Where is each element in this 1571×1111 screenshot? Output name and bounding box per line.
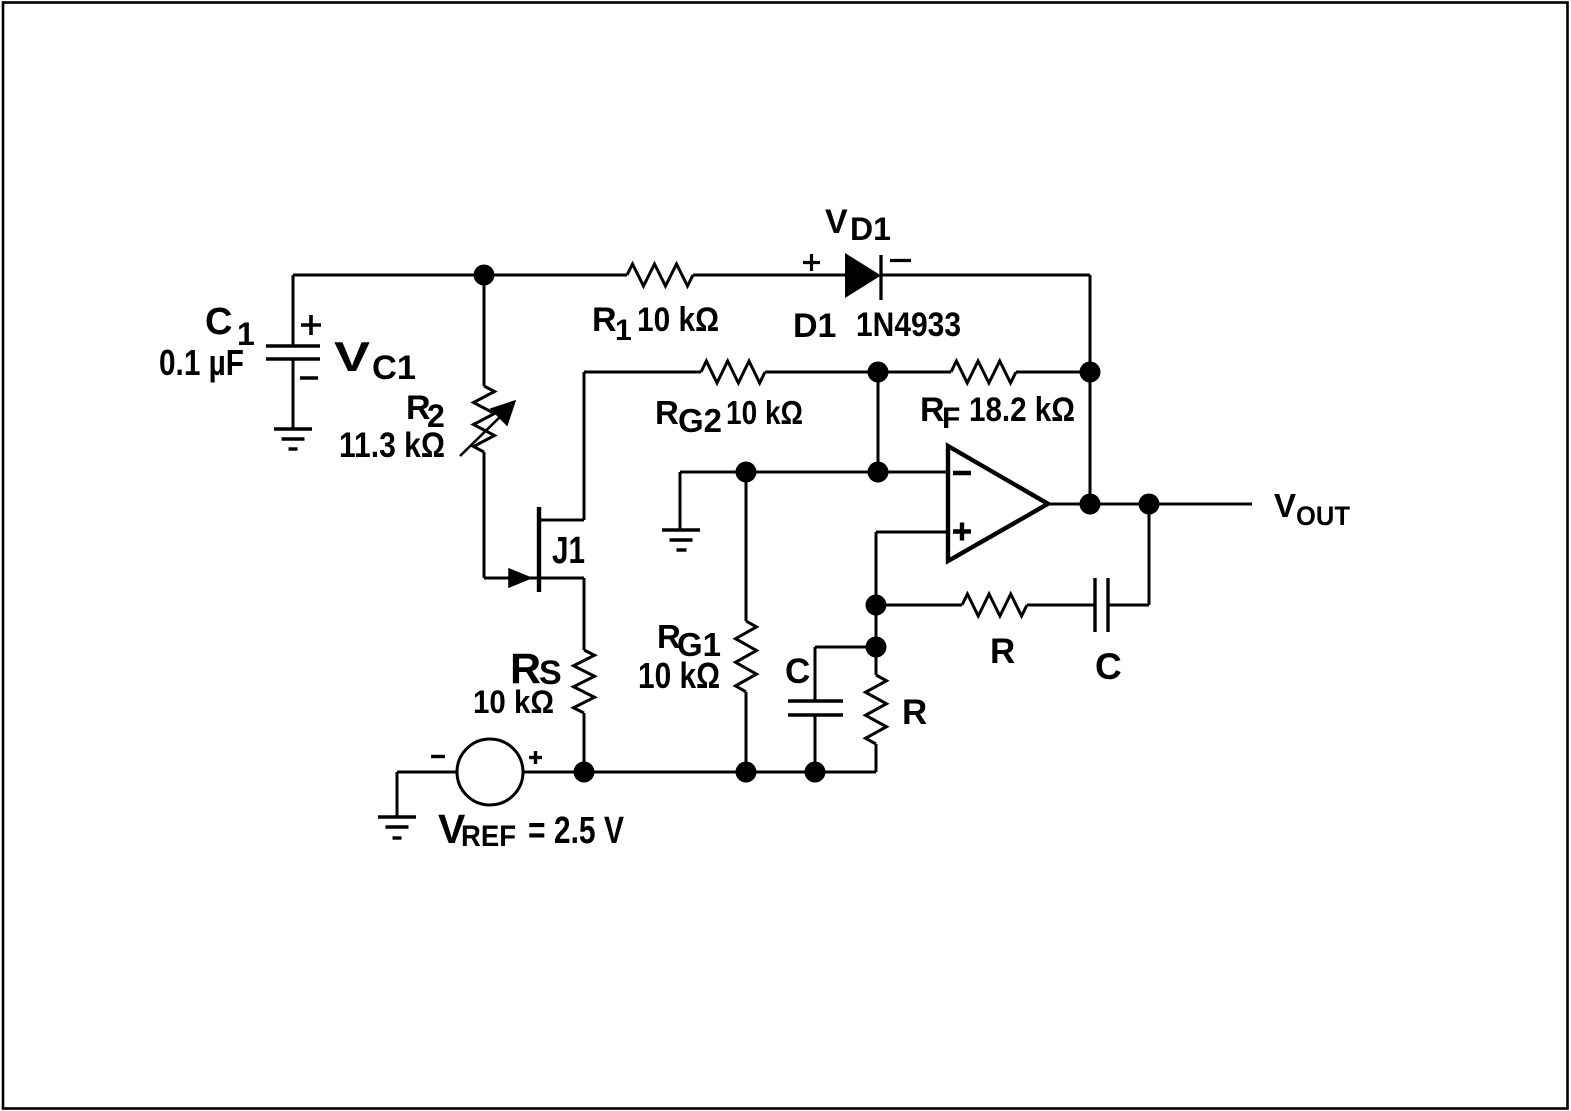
diode D1 plus mark — [803, 254, 820, 271]
node VC1 label — [334, 333, 416, 387]
wire bottom rail — [523, 771, 876, 774]
wire J1 drain lead — [539, 519, 584, 522]
node junction dot output feedback — [1139, 494, 1160, 515]
wire C1 bottom stem to ground — [292, 359, 295, 429]
wire R2 to J1 gate — [483, 452, 486, 578]
resistor RF label 18.2 kOhm — [920, 391, 1075, 435]
svg-text:11.3 kΩ: 11.3 kΩ — [339, 426, 445, 465]
wire feedback left of R — [876, 604, 962, 607]
wire J1 gate lead — [484, 577, 537, 580]
wire feedback between R and C — [1027, 604, 1095, 607]
transistor J1 JFET — [509, 507, 539, 592]
voltage source VREF label = 2.5 V — [438, 806, 625, 853]
resistor R2 variable — [460, 386, 515, 456]
wire top rail from C1 to R1 — [293, 274, 627, 277]
svg-text:V: V — [334, 333, 370, 380]
ground at VREF — [378, 817, 416, 838]
wire non-inverting input lead — [876, 531, 948, 534]
svg-text:10 kΩ: 10 kΩ — [473, 684, 554, 720]
svg-text:1N4933: 1N4933 — [856, 306, 961, 344]
resistor RG2 label 10 kOhm — [655, 394, 803, 439]
svg-text:0.1 µF: 0.1 µF — [159, 342, 244, 383]
capacitor C feedback — [1095, 578, 1108, 632]
wire J1 drain up to RG2 — [583, 372, 586, 520]
svg-text:10 kΩ: 10 kΩ — [638, 655, 720, 696]
svg-text:10 kΩ: 10 kΩ — [726, 394, 803, 431]
wire feedback up to output — [1148, 504, 1151, 605]
svg-text:R: R — [592, 301, 617, 339]
resistor RG1 — [736, 621, 757, 692]
capacitor C1 plus mark — [301, 315, 321, 335]
wire RG1 bottom lead — [745, 692, 748, 772]
wire node A down to R2 — [483, 275, 486, 386]
node junction dot feedback tap — [866, 595, 887, 616]
svg-text:1: 1 — [615, 314, 632, 347]
node junction dot inverting input — [868, 462, 889, 483]
resistor RS — [574, 650, 595, 713]
wire VREF left lead — [397, 771, 457, 774]
wire C top stem — [814, 647, 817, 701]
node junction dot RF right — [1080, 362, 1101, 383]
wire C branch horizontal — [815, 646, 876, 649]
wire non-inverting vertical upper — [875, 532, 878, 675]
svg-text:C: C — [205, 301, 232, 343]
svg-text:C: C — [785, 652, 810, 691]
resistor RS label — [510, 645, 562, 693]
svg-text:F: F — [942, 402, 960, 435]
wire RF right lead — [1016, 371, 1090, 374]
resistor RG1 label — [657, 618, 721, 663]
wire R1 to D1 anode — [693, 274, 845, 277]
diode D1 name and part number — [793, 306, 961, 345]
resistor R1 label 10 kOhm — [592, 301, 719, 347]
node junction dot RG1 top — [736, 462, 757, 483]
svg-text:G2: G2 — [678, 402, 722, 439]
wire RS bottom lead — [583, 713, 586, 772]
op-amp U1 — [948, 446, 1048, 561]
svg-text:10 kΩ: 10 kΩ — [637, 301, 719, 339]
voltage source VREF minus mark — [431, 755, 445, 758]
svg-text:R: R — [990, 632, 1015, 671]
resistor R vertical — [866, 675, 887, 744]
svg-text:C1: C1 — [372, 349, 416, 387]
wire below resistor R vertical — [875, 744, 878, 772]
svg-text:18.2 kΩ: 18.2 kΩ — [969, 391, 1075, 429]
wire J1 source down to RS — [583, 578, 586, 650]
resistor RG2 — [701, 361, 765, 383]
svg-text:OUT: OUT — [1296, 501, 1350, 531]
node B junction dot RG2-RF — [868, 362, 889, 383]
wire RG2 left lead — [584, 371, 701, 374]
svg-text:= 2.5 V: = 2.5 V — [528, 810, 625, 852]
resistor RF — [951, 361, 1016, 383]
resistor R2 label — [406, 389, 445, 434]
svg-text:R: R — [655, 394, 679, 431]
node junction dot C tap — [866, 637, 887, 658]
resistor R feedback — [962, 594, 1027, 616]
svg-text:D1: D1 — [850, 211, 891, 247]
svg-text:REF: REF — [461, 820, 516, 853]
node junction dot output — [1080, 494, 1101, 515]
wire node B down to inverting input rail — [877, 372, 880, 472]
ground at inverting rail — [662, 530, 700, 550]
wire D1 cathode to right corner — [881, 274, 1090, 277]
ground below C1 — [274, 429, 312, 449]
wire RG2 to RF — [765, 371, 951, 374]
wire inverting input rail — [680, 471, 948, 474]
svg-text:V: V — [1274, 487, 1296, 524]
svg-text:D1: D1 — [793, 307, 836, 345]
node VOUT label — [1274, 487, 1350, 531]
capacitor C1 — [266, 346, 320, 359]
node VD1 label — [825, 203, 891, 247]
wire right vertical down to output node — [1089, 275, 1092, 504]
wire VREF ground stem — [396, 772, 399, 817]
wire C bottom stem — [814, 715, 817, 772]
svg-text:V: V — [825, 203, 848, 241]
voltage source VREF — [457, 739, 523, 805]
capacitor C lower — [788, 701, 843, 715]
svg-text:R: R — [902, 693, 927, 732]
capacitor C1 label — [205, 301, 255, 352]
node junction dot C bottom rail — [805, 762, 826, 783]
node junction dot RG1 bottom rail — [736, 762, 757, 783]
wire feedback right of C — [1108, 604, 1149, 607]
wire C1 top stem — [292, 275, 295, 346]
voltage source VREF plus mark — [529, 751, 542, 764]
diode D1 minus mark — [890, 259, 911, 262]
capacitor C1 minus mark — [300, 376, 318, 380]
svg-text:J1: J1 — [552, 530, 585, 572]
node A junction dot — [474, 265, 495, 286]
node junction dot RS bottom rail — [574, 762, 595, 783]
wire output rail — [1048, 503, 1252, 506]
svg-text:R: R — [920, 391, 945, 429]
resistor R1 — [627, 264, 693, 286]
wire RG1 top lead — [745, 472, 748, 621]
diode D1 — [845, 253, 881, 300]
wire J1 source lead — [539, 577, 584, 580]
wire ground stem at inverting rail — [679, 472, 682, 529]
svg-text:C: C — [1095, 646, 1122, 687]
